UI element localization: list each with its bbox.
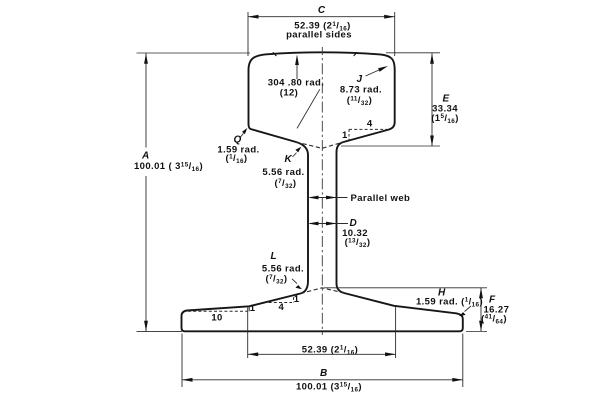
dimension E arrow down <box>430 136 434 147</box>
crown radius leader vertical with up arrow <box>296 62 298 79</box>
dimension B arrow right <box>452 378 463 382</box>
dimension F line <box>480 288 482 332</box>
svg-text:1: 1 <box>294 294 300 305</box>
svg-text:5.56 rad.: 5.56 rad. <box>262 167 304 178</box>
dimension F arrow down <box>479 321 483 332</box>
parallel web arrow left <box>308 196 319 200</box>
dashed foot top intersection V <box>301 288 345 294</box>
dimension D arrow right <box>326 222 337 226</box>
foot slope 1:10 dashed horizontal <box>188 310 248 312</box>
svg-text:52.39 (21/16): 52.39 (21/16) <box>302 344 358 356</box>
svg-text:B: B <box>320 368 327 379</box>
top extension line (head top level, left) <box>137 52 251 54</box>
dimension C arrow left <box>248 15 259 19</box>
svg-text:100.01 ( 315/16): 100.01 ( 315/16) <box>134 161 203 173</box>
dimension C extension line left <box>247 12 249 56</box>
H leader with arrow <box>465 306 472 312</box>
svg-text:K: K <box>285 154 293 165</box>
dimension C arrow right <box>384 15 395 19</box>
svg-text:10: 10 <box>211 312 222 323</box>
parallel web leader line <box>310 197 348 199</box>
L leader with arrow <box>292 279 297 284</box>
dimension C line <box>248 16 395 18</box>
dashed head underside intersection V <box>296 142 344 148</box>
dimension B extension line right <box>462 334 464 388</box>
head slope gauge 1:4 dashed horizontal <box>349 128 388 130</box>
svg-text:C: C <box>318 5 326 16</box>
svg-text:8.73 rad.: 8.73 rad. <box>340 85 382 96</box>
svg-text:J: J <box>357 74 363 85</box>
dimension B arrow left <box>182 378 193 382</box>
svg-text:Parallel web: Parallel web <box>351 193 411 204</box>
foot slope 1:10 tick <box>248 306 250 311</box>
foot slope 1:4 tick <box>293 297 295 302</box>
svg-text:4: 4 <box>367 118 373 129</box>
dimension D leader line <box>310 223 348 225</box>
dimension A line upper part <box>145 53 147 147</box>
dimension A line lower part <box>145 176 147 331</box>
bottom 52.39 extension line left <box>247 308 249 359</box>
bottom 52.39 extension line right <box>395 307 397 359</box>
dimension F arrow up <box>479 288 483 299</box>
bottom 52.39 arrow left <box>248 352 259 356</box>
svg-text:100.01 (315/16): 100.01 (315/16) <box>296 381 362 393</box>
E bottom extension line (head depth level) <box>341 145 440 147</box>
F bottom extension line <box>466 330 487 332</box>
svg-text:1: 1 <box>250 303 256 314</box>
svg-text:1.59 rad. (1/16): 1.59 rad. (1/16) <box>416 296 483 308</box>
svg-text:1.59 rad.: 1.59 rad. <box>217 144 259 155</box>
dimension B line <box>182 379 463 381</box>
svg-text:(13/32): (13/32) <box>345 237 371 249</box>
Q leader with arrow <box>241 133 244 137</box>
svg-text:(41/64): (41/64) <box>481 313 507 325</box>
crown arc transition tick right <box>354 52 358 56</box>
svg-text:A: A <box>141 151 149 162</box>
crown radius leader diagonal <box>297 89 320 128</box>
svg-text:parallel sides: parallel sides <box>286 29 352 40</box>
K leader with arrow <box>293 153 297 157</box>
dimension E arrow up <box>430 53 434 64</box>
svg-text:4: 4 <box>279 302 285 313</box>
svg-text:(7/32): (7/32) <box>275 178 297 190</box>
J leader with arrow <box>366 69 382 76</box>
dimension D arrow left <box>308 222 319 226</box>
svg-text:(15/16): (15/16) <box>431 113 459 125</box>
head slope gauge 1:4 dashed vertical tick <box>348 129 350 139</box>
svg-text:(12): (12) <box>280 87 299 98</box>
svg-text:(7/32): (7/32) <box>266 273 288 285</box>
svg-text:1: 1 <box>342 130 348 141</box>
vertical center line (dash-dot) <box>321 47 323 335</box>
bottom 52.39 arrow right <box>385 352 396 356</box>
baseline extension left (for A) <box>137 331 183 333</box>
parallel web arrow right <box>326 196 337 200</box>
bottom dimension 52.39 line <box>248 353 396 355</box>
svg-text:L: L <box>271 251 277 262</box>
crown arc transition tick left <box>273 52 277 56</box>
foot slope 1:4 dashed horizontal <box>269 302 292 304</box>
dimension E line <box>431 53 433 146</box>
rail profile outline <box>182 52 463 331</box>
dimension B extension line left <box>181 334 183 388</box>
top extension line (head top level, right) <box>386 52 440 54</box>
svg-text:(11/32): (11/32) <box>347 95 372 107</box>
dimension C extension line right <box>394 12 396 56</box>
F top extension line (from foot surface intersection) <box>324 287 487 289</box>
dimension A arrow up <box>144 53 148 64</box>
dimension A arrow down <box>144 321 148 332</box>
